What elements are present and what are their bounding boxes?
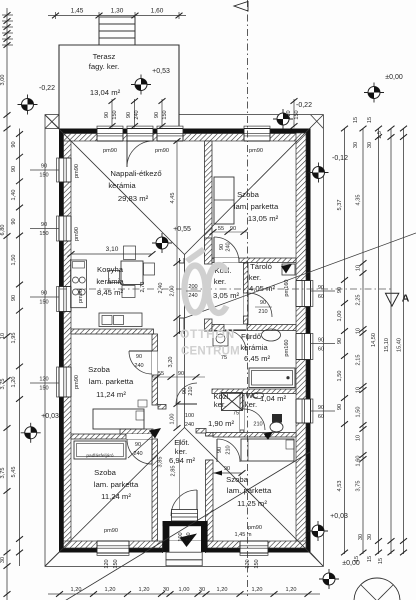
svg-text:210: 210 (253, 422, 262, 428)
svg-text:Szoba: Szoba (94, 468, 117, 477)
svg-text:90: 90 (337, 287, 343, 293)
svg-text:±0,00: ±0,00 (385, 74, 403, 81)
svg-text:13,04 m²: 13,04 m² (90, 88, 121, 97)
window top wall bedroom (120/150) (244, 129, 270, 142)
svg-text:padlásfeljáró: padlásfeljáró (86, 453, 114, 459)
attic access closet (74, 441, 126, 459)
entry porch walls (163, 521, 170, 552)
svg-text:lam. parketta: lam. parketta (89, 377, 134, 386)
window top wall B (90/150) (157, 129, 183, 142)
svg-text:1,20: 1,20 (252, 587, 263, 593)
svg-text:90: 90 (126, 112, 132, 118)
door middle-left bedroom (129, 350, 152, 352)
svg-text:1,00: 1,00 (337, 311, 343, 322)
roof ridge line (184, 255, 186, 428)
window right wall bath (90/60) (296, 334, 311, 360)
svg-text:pm90: pm90 (155, 148, 169, 154)
watermark roof (185, 247, 206, 264)
svg-text:30: 30 (199, 587, 205, 593)
window left wall kitchen (90/150) (59, 287, 71, 312)
svg-text:2,85: 2,85 (171, 466, 177, 477)
svg-text:1,20: 1,20 (139, 587, 150, 593)
svg-text:90: 90 (135, 442, 141, 448)
svg-text:240: 240 (185, 422, 194, 428)
survey marker (364, 83, 384, 103)
svg-text:-0,22: -0,22 (296, 102, 312, 109)
svg-text:Szoba: Szoba (237, 190, 260, 199)
svg-text:Szoba: Szoba (226, 475, 249, 484)
svg-text:3,10: 3,10 (106, 246, 119, 253)
window left wall room (120/150) (59, 367, 71, 397)
right dimension lines (344, 129, 346, 555)
svg-text:150: 150 (112, 110, 118, 119)
svg-text:60: 60 (318, 294, 324, 300)
svg-text:pm90: pm90 (104, 528, 118, 534)
left inner dimension line (19, 129, 21, 567)
svg-text:15,40: 15,40 (397, 338, 403, 352)
top wall opening dim lines (111, 99, 113, 128)
ridge leader line to right margin (185, 233, 416, 318)
svg-text:150: 150 (39, 173, 48, 179)
eaves corner diagonal bottom-right (311, 553, 324, 567)
door gap storage (244, 293, 249, 316)
bathtub (249, 368, 295, 388)
door gap middle-left bedroom (152, 351, 158, 375)
window bottom wall right room (120/150) (240, 541, 268, 553)
terrace door opening (90/240) (127, 129, 153, 142)
wardrobe in top-right bedroom (214, 177, 234, 224)
svg-text:4,53: 4,53 (337, 481, 343, 492)
svg-text:Nappali-étkező: Nappali-étkező (110, 169, 161, 178)
dining table with chairs (121, 261, 143, 285)
svg-text:240: 240 (134, 363, 143, 369)
svg-text:11,25 m²: 11,25 m² (237, 499, 267, 508)
interior vertical dimension line (176, 141, 178, 428)
svg-text:120: 120 (39, 377, 48, 383)
svg-text:4,45: 4,45 (170, 193, 176, 204)
svg-text:14,50: 14,50 (371, 333, 377, 347)
svg-text:15: 15 (367, 556, 373, 562)
svg-text:4,05 m²: 4,05 m² (249, 284, 276, 293)
svg-text:5,45: 5,45 (11, 467, 17, 478)
roof hip line bottom-left (45, 428, 185, 567)
window right wall storage (90/60) (296, 281, 311, 307)
svg-text:kerámia: kerámia (240, 343, 268, 352)
svg-text:lam. parketta: lam. parketta (94, 480, 139, 489)
svg-text:210: 210 (226, 445, 232, 454)
svg-text:15: 15 (353, 117, 359, 123)
svg-text:90: 90 (11, 218, 17, 224)
svg-text:210: 210 (188, 386, 194, 395)
spine wall stub at corridor bottom (205, 319, 213, 331)
svg-text:4,35: 4,35 (356, 195, 362, 206)
svg-text:1,00: 1,00 (170, 414, 176, 425)
svg-text:6,45 m²: 6,45 m² (244, 354, 271, 363)
entry door frame (172, 510, 198, 522)
door hall to wc (244, 409, 265, 430)
kitchen 3,10 dimension (71, 253, 152, 255)
svg-text:30: 30 (367, 142, 373, 148)
small hall stub wall (158, 405, 166, 410)
horizontal section line A-A (60, 288, 392, 290)
svg-text:2,15: 2,15 (356, 355, 362, 366)
svg-text:kerámia: kerámia (96, 277, 124, 286)
svg-text:kerámia: kerámia (108, 181, 136, 190)
svg-text:2,00: 2,00 (170, 286, 176, 297)
svg-text:15: 15 (354, 556, 360, 562)
bath bottom wall (212, 389, 296, 394)
svg-text:11,24 m²: 11,24 m² (96, 390, 126, 399)
svg-text:100: 100 (185, 413, 194, 419)
svg-text:90: 90 (318, 285, 324, 291)
svg-text:ker.: ker. (249, 273, 261, 282)
svg-text:1,50: 1,50 (337, 371, 343, 382)
entry path line with arrow (58, 452, 310, 600)
svg-text:90: 90 (11, 166, 17, 172)
bottom wall of top-right bedroom (212, 258, 296, 263)
svg-text:3,75: 3,75 (0, 379, 6, 390)
svg-text:150: 150 (294, 110, 300, 119)
svg-text:90: 90 (260, 300, 266, 306)
svg-text:ker.: ker. (214, 277, 226, 286)
svg-text:15,10: 15,10 (384, 338, 390, 352)
svg-text:90: 90 (41, 222, 47, 228)
exterior wall right (306, 129, 311, 553)
svg-text:1,60: 1,60 (356, 456, 362, 467)
left outer dimension line (6, 8, 8, 600)
svg-text:75: 75 (233, 411, 239, 417)
corridor east wall / storage west wall (244, 263, 249, 324)
window bottom wall left room (120/150) (97, 541, 129, 553)
wall under living room (top of middle-left bedroom) (71, 329, 154, 334)
svg-text:210: 210 (186, 532, 192, 541)
svg-text:10: 10 (356, 265, 362, 271)
svg-text:ker.: ker. (175, 447, 187, 456)
svg-text:lam. parketta: lam. parketta (234, 202, 279, 211)
window left wall 2 (90/150) (59, 216, 71, 241)
door gap bottom-left bedroom (126, 434, 152, 439)
svg-text:15: 15 (378, 558, 384, 564)
eaves corner diagonal bottom-left (45, 553, 59, 567)
svg-text:150: 150 (39, 300, 48, 306)
svg-text:1,00: 1,00 (179, 587, 190, 593)
svg-text:3,20: 3,20 (168, 357, 174, 368)
svg-text:75: 75 (221, 355, 227, 361)
middle-left bedroom east wall (152, 334, 158, 405)
svg-text:pm160: pm160 (284, 279, 290, 296)
exterior wall bottom (59, 548, 311, 553)
entry door leaf and swing (196, 490, 198, 516)
roof hip line top-left (45, 115, 185, 255)
eaves / roof outline (45, 115, 323, 567)
spine wall stub at corridor top (205, 238, 213, 264)
svg-text:1,50: 1,50 (356, 407, 362, 418)
svg-text:-0,22: -0,22 (39, 85, 55, 92)
svg-text:Szoba: Szoba (88, 365, 111, 374)
svg-text:2,40: 2,40 (158, 283, 164, 294)
svg-text:90: 90 (178, 371, 184, 377)
survey marker (319, 569, 339, 589)
svg-text:CENTRUM: CENTRUM (181, 346, 240, 358)
watermark OC (185, 266, 206, 313)
svg-text:pm90: pm90 (74, 164, 80, 178)
svg-text:90: 90 (219, 244, 225, 250)
roof hip line top-right (185, 115, 324, 255)
svg-text:30: 30 (358, 534, 364, 540)
svg-text:120: 120 (286, 110, 292, 119)
svg-text:11,24 m²: 11,24 m² (101, 492, 131, 501)
terrace stairs (99, 17, 135, 24)
svg-text:6,80: 6,80 (0, 225, 6, 236)
svg-text:90: 90 (104, 112, 110, 118)
interior load-bearing wall between living room and bedroom (spine upper) (205, 141, 213, 258)
svg-text:3,75: 3,75 (356, 481, 362, 492)
svg-text:210: 210 (258, 309, 267, 315)
kitchen counter with sink and hob (71, 260, 87, 308)
svg-text:6,94 m²: 6,94 m² (169, 456, 196, 465)
svg-text:1,20: 1,20 (217, 587, 228, 593)
svg-text:30: 30 (163, 587, 169, 593)
svg-text:pm90: pm90 (248, 525, 262, 531)
west wall of entry hall / left bedroom east wall (152, 439, 158, 541)
svg-text:200: 200 (188, 284, 197, 290)
svg-text:150: 150 (39, 231, 48, 237)
svg-text:+0,03: +0,03 (330, 513, 348, 520)
svg-text:3,05 m²: 3,05 m² (213, 291, 240, 300)
svg-text:120: 120 (245, 559, 251, 568)
survey marker (273, 109, 293, 129)
svg-text:90: 90 (337, 404, 343, 410)
svg-text:pm160: pm160 (284, 339, 290, 356)
wc west wall (240, 394, 244, 433)
window right wall wc (90/60) (296, 399, 311, 423)
survey marker (308, 521, 328, 541)
terrace outline (59, 45, 179, 129)
svg-text:1,45 m: 1,45 m (234, 532, 251, 538)
wc toilet (272, 414, 282, 423)
svg-text:1,90 m²: 1,90 m² (208, 419, 235, 428)
svg-text:Konyha: Konyha (97, 265, 124, 274)
bed middle-left bedroom (93, 409, 144, 429)
spine wall lower (entry hall east wall) (206, 433, 214, 437)
svg-text:1,30: 1,30 (111, 8, 124, 15)
bed bottom-right bedroom (241, 439, 294, 461)
svg-text:60: 60 (318, 414, 324, 420)
big survey circle bottom-right (354, 578, 400, 600)
svg-text:90: 90 (217, 447, 223, 453)
door gap bath (224, 325, 247, 331)
svg-text:1,40: 1,40 (11, 190, 17, 201)
interior dim line in entry (179, 440, 181, 521)
svg-text:pm90: pm90 (103, 148, 117, 154)
svg-text:OTTHON: OTTHON (180, 327, 235, 341)
door corridor to storage (247, 293, 249, 317)
exterior wall left (59, 129, 64, 553)
svg-text:10: 10 (356, 328, 362, 334)
svg-text:1,20: 1,20 (71, 587, 82, 593)
eaves corner diagonal top-right (311, 115, 324, 129)
wall living room / hallway with 200-240 opening (179, 258, 181, 334)
svg-text:pm90: pm90 (78, 289, 84, 303)
svg-text:lam. parketta: lam. parketta (227, 486, 272, 495)
svg-text:Előt.: Előt. (174, 438, 189, 447)
svg-text:Terasz: Terasz (93, 52, 116, 61)
top wall of bottom-right bedroom (213, 433, 296, 438)
svg-text:240: 240 (133, 451, 142, 457)
section triangle top (234, 2, 248, 12)
door corridor to top-right bedroom (213, 237, 215, 262)
window top wall A (90/150) (97, 129, 123, 142)
svg-text:90: 90 (154, 112, 160, 118)
svg-text:90: 90 (337, 338, 343, 344)
svg-text:1,04 m²: 1,04 m² (260, 394, 287, 403)
svg-text:120: 120 (104, 559, 110, 568)
door small hall (176, 403, 197, 405)
svg-text:+0,03: +0,03 (41, 413, 59, 420)
survey marker (21, 423, 41, 443)
door gap wc (240, 409, 244, 430)
svg-text:150: 150 (254, 559, 260, 568)
svg-text:90: 90 (136, 354, 142, 360)
svg-text:10: 10 (356, 435, 362, 441)
porch steps (166, 552, 202, 560)
svg-text:90: 90 (224, 466, 230, 472)
svg-text:100: 100 (178, 532, 184, 541)
svg-text:30: 30 (0, 557, 6, 563)
svg-text:5,37: 5,37 (337, 200, 343, 211)
svg-text:pm90: pm90 (74, 375, 80, 389)
svg-text:ker.: ker. (214, 400, 226, 409)
top wall of entry hall (120, 429, 153, 434)
survey marker (131, 75, 151, 95)
svg-text:1,95: 1,95 (11, 333, 17, 344)
svg-text:10: 10 (0, 333, 6, 339)
svg-text:240: 240 (134, 110, 140, 119)
left window dimension labels (30, 169, 59, 171)
right window dimension labels (311, 290, 336, 292)
door entry hall to bottom-right bedroom (216, 439, 218, 462)
bottom dimension line (48, 593, 320, 595)
svg-text:15: 15 (367, 117, 373, 123)
storage shelf (282, 264, 295, 275)
svg-text:90: 90 (318, 405, 324, 411)
svg-text:1,60: 1,60 (151, 8, 164, 15)
svg-text:13,05 m²: 13,05 m² (248, 214, 279, 223)
svg-text:1,5: 1,5 (377, 131, 383, 139)
vertical section line (247, 0, 249, 596)
entry recess opening in bottom wall (163, 541, 206, 553)
svg-text:30: 30 (353, 142, 359, 148)
svg-text:150: 150 (39, 386, 48, 392)
survey marker (152, 233, 172, 253)
svg-text:55: 55 (218, 226, 224, 232)
washing machine (213, 331, 228, 346)
arrow entry hall (128, 429, 160, 458)
bath sink (262, 329, 281, 341)
svg-text:3,85: 3,85 (158, 457, 164, 468)
svg-text:30: 30 (367, 534, 373, 540)
door corridor to bath (225, 329, 246, 331)
svg-text:fagy. ker.: fagy. ker. (89, 62, 120, 71)
svg-text:90: 90 (41, 164, 47, 170)
svg-text:2,73: 2,73 (140, 282, 146, 293)
svg-text:1,45: 1,45 (71, 8, 84, 15)
section marker A right (386, 293, 399, 306)
svg-text:90: 90 (11, 295, 17, 301)
svg-text:240: 240 (226, 242, 232, 251)
wall between the two left bedrooms (71, 434, 152, 439)
survey marker (309, 163, 329, 183)
svg-text:150: 150 (113, 559, 119, 568)
exterior wall top (59, 129, 311, 134)
top dimension line 1,45 1,30 1,60 (48, 15, 186, 17)
svg-text:60: 60 (318, 347, 324, 353)
svg-text:Fürdő: Fürdő (241, 332, 261, 341)
svg-text:1,20: 1,20 (11, 377, 17, 388)
wall under corridor and storage (bath top) (212, 325, 296, 331)
door gap top-right bedroom (214, 258, 239, 263)
svg-text:1,50: 1,50 (11, 255, 17, 266)
svg-text:90: 90 (230, 226, 236, 232)
svg-text:90: 90 (11, 141, 17, 147)
svg-text:8,45 m²: 8,45 m² (97, 288, 124, 297)
arrow storage (281, 264, 292, 274)
svg-text:2,25: 2,25 (356, 295, 362, 306)
survey marker (18, 95, 38, 115)
svg-text:1,20: 1,20 (105, 587, 116, 593)
roof hip line bottom-right (185, 428, 324, 567)
svg-text:-0,12: -0,12 (332, 155, 348, 162)
svg-text:ker.: ker. (245, 400, 257, 409)
window left wall 1 (90/150) (59, 158, 71, 182)
door bottom-left bedroom (151, 439, 153, 464)
kitchen lower counter (99, 313, 142, 327)
svg-text:240: 240 (188, 293, 197, 299)
svg-text:90: 90 (318, 338, 324, 344)
svg-text:3,75: 3,75 (0, 468, 6, 479)
svg-text:1,20: 1,20 (286, 587, 297, 593)
svg-text:+0,53: +0,53 (152, 68, 170, 75)
crossed box in hall2 (222, 393, 243, 411)
svg-text:+0,55: +0,55 (173, 226, 191, 233)
svg-text:A: A (402, 293, 410, 305)
eaves corner box top-left (45, 128, 59, 130)
svg-text:29,83 m²: 29,83 m² (118, 194, 149, 203)
svg-text:3,00: 3,00 (0, 75, 6, 86)
svg-text:10: 10 (356, 387, 362, 393)
svg-text:Tároló: Tároló (250, 262, 272, 271)
svg-text:150: 150 (162, 110, 168, 119)
svg-text:pm90: pm90 (249, 148, 263, 154)
svg-text:90: 90 (41, 291, 47, 297)
terrace entrance door leaf and swing (126, 141, 128, 167)
svg-text:pm90: pm90 (74, 227, 80, 241)
